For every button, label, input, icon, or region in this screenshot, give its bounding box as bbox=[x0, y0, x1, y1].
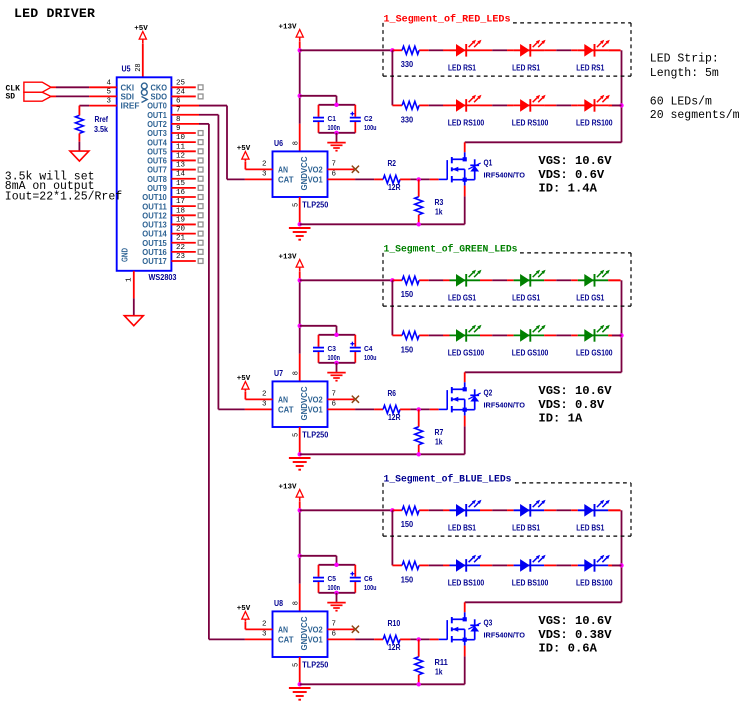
transistor Q1 IRF540N channel 1 bbox=[439, 178, 448, 180]
svg-text:U5: U5 bbox=[122, 65, 131, 74]
svg-text:1_Segment_of_GREEN_LEDs: 1_Segment_of_GREEN_LEDs bbox=[384, 244, 518, 256]
dashed segment box channel 3 bbox=[382, 483, 384, 536]
wire after LED 2 row1 channel 2 bbox=[544, 279, 556, 281]
LED LED RS100 #3 row2 channel 1 bbox=[578, 104, 609, 106]
unconnected terminal pin 15 bbox=[198, 185, 203, 190]
node junction rail at R3 bbox=[417, 222, 421, 226]
svg-text:25: 25 bbox=[176, 79, 186, 87]
svg-text:1k: 1k bbox=[435, 438, 443, 447]
wire row2 channel 3 bbox=[429, 564, 444, 566]
svg-text:OUT3: OUT3 bbox=[147, 129, 167, 138]
wire source Q2 to rail bbox=[464, 416, 466, 427]
LED LED RS1 #2 row1 channel 1 bbox=[514, 49, 545, 51]
svg-text:2: 2 bbox=[262, 620, 267, 628]
svg-text:7: 7 bbox=[332, 390, 337, 398]
wire drain Q1 bbox=[464, 142, 466, 152]
unconnected terminal pin 10 bbox=[198, 140, 203, 145]
node junction gate channel 1 bbox=[417, 177, 421, 181]
no-connect X at VO2 U7 bbox=[352, 396, 359, 403]
node junction +13V row1 channel 2 bbox=[298, 278, 302, 282]
svg-text:17: 17 bbox=[176, 198, 185, 206]
svg-text:4: 4 bbox=[106, 79, 111, 87]
LED LED BS1 #1 row1 channel 3 bbox=[450, 509, 481, 511]
svg-text:60 LEDs/m: 60 LEDs/m bbox=[650, 95, 712, 108]
wire to LED 2 row2 channel 2 bbox=[507, 334, 513, 336]
svg-text:VDS: 0.6V: VDS: 0.6V bbox=[538, 168, 605, 182]
svg-text:CKI: CKI bbox=[121, 83, 135, 92]
wire after LED 1 row1 channel 2 bbox=[480, 279, 492, 281]
optocoupler U7 TLP250 body channel 2 bbox=[273, 381, 328, 427]
node junction return row2 channel 2 bbox=[619, 333, 623, 337]
wire stub U5 pin 25 bbox=[171, 86, 195, 88]
svg-text:LED GS1: LED GS1 bbox=[576, 294, 604, 303]
svg-text:VDS: 0.8V: VDS: 0.8V bbox=[538, 398, 605, 412]
wire after LED 1 row1 channel 1 bbox=[480, 49, 492, 51]
svg-text:12R: 12R bbox=[388, 183, 401, 192]
svg-text:13: 13 bbox=[176, 162, 186, 170]
svg-text:6: 6 bbox=[332, 170, 337, 178]
wire VO2 no-connect U6 bbox=[328, 168, 355, 170]
svg-text:LED BS100: LED BS100 bbox=[576, 579, 613, 588]
svg-text:28: 28 bbox=[135, 63, 143, 71]
svg-text:+5V: +5V bbox=[134, 25, 148, 33]
resistor 330 row2 channel 1 bbox=[402, 101, 419, 109]
wire rows split to row2 channel 3 bbox=[391, 510, 393, 565]
svg-text:OUT12: OUT12 bbox=[142, 211, 167, 220]
resistor 150 row1 channel 3 bbox=[392, 509, 402, 511]
svg-text:U8: U8 bbox=[274, 599, 283, 608]
svg-text:R10: R10 bbox=[388, 619, 401, 628]
svg-text:+5V: +5V bbox=[237, 605, 251, 613]
svg-text:7: 7 bbox=[332, 160, 337, 168]
svg-text:8: 8 bbox=[292, 141, 300, 145]
svg-text:9: 9 bbox=[176, 125, 181, 133]
unconnected terminal pin 12 bbox=[198, 158, 203, 163]
wire rows split to row2 channel 1 bbox=[391, 50, 393, 105]
svg-text:Length: 5m: Length: 5m bbox=[650, 67, 719, 80]
ground symbol under U5 bbox=[124, 316, 143, 326]
node junction rows split channel 1 bbox=[390, 48, 394, 52]
svg-text:R7: R7 bbox=[435, 428, 444, 437]
wire after LED 1 row2 channel 2 bbox=[480, 334, 492, 336]
wire to LED 3 row1 channel 1 bbox=[571, 49, 578, 51]
wire row1 to return rail channel 3 bbox=[608, 509, 620, 511]
wire VO2 no-connect U7 bbox=[328, 398, 355, 400]
wire to LED 3 row1 channel 2 bbox=[571, 279, 578, 281]
svg-text:OUT2: OUT2 bbox=[147, 120, 167, 129]
wire stub U5 pin 9 bbox=[171, 132, 195, 134]
LED LED GS100 #2 row2 channel 2 bbox=[514, 334, 545, 336]
wire R6 to gate bbox=[410, 408, 429, 410]
LED LED BS100 #2 row2 channel 3 bbox=[514, 564, 545, 566]
svg-text:150: 150 bbox=[401, 345, 414, 354]
wire caps branch channel 2 bbox=[300, 325, 337, 327]
node junction return row2 channel 1 bbox=[619, 103, 623, 107]
wire after LED 2 row2 channel 3 bbox=[544, 564, 556, 566]
ground symbol under Rref bbox=[70, 151, 89, 161]
svg-text:LED RS1: LED RS1 bbox=[448, 64, 476, 73]
svg-text:+13V: +13V bbox=[278, 253, 297, 261]
unconnected terminal pin 17 bbox=[198, 204, 203, 209]
ground symbol rail channel 3 bbox=[289, 687, 311, 689]
wire R2 to gate bbox=[410, 178, 429, 180]
svg-text:+5V: +5V bbox=[237, 145, 251, 153]
svg-text:14: 14 bbox=[176, 171, 186, 179]
ground symbol rail channel 2 bbox=[289, 457, 311, 459]
wire row1 to return rail channel 1 bbox=[608, 49, 620, 51]
wire to LED 1 row2 channel 2 bbox=[443, 334, 450, 336]
unconnected terminal pin 22 bbox=[198, 249, 203, 254]
wire VO2 no-connect U8 bbox=[328, 628, 355, 630]
svg-text:3: 3 bbox=[262, 400, 267, 408]
svg-text:OUT16: OUT16 bbox=[142, 248, 167, 257]
svg-text:IRF540N/TO: IRF540N/TO bbox=[484, 633, 526, 640]
unconnected terminal pin 21 bbox=[198, 240, 203, 245]
wire caps to ground channel 1 bbox=[336, 133, 338, 142]
LED LED RS1 #3 row1 channel 1 bbox=[578, 49, 609, 51]
wire stub U5 pin 12 bbox=[171, 159, 195, 161]
svg-text:22: 22 bbox=[176, 244, 185, 252]
svg-text:23: 23 bbox=[176, 253, 186, 261]
wire VO1 to R10 bbox=[328, 638, 356, 640]
svg-text:1k: 1k bbox=[435, 208, 443, 217]
svg-text:AN: AN bbox=[278, 166, 288, 175]
svg-text:SDI: SDI bbox=[121, 92, 135, 101]
svg-text:CAT: CAT bbox=[278, 636, 294, 645]
svg-text:8: 8 bbox=[176, 116, 181, 124]
resistor 150 row2 channel 3 bbox=[402, 561, 419, 569]
svg-text:150: 150 bbox=[401, 575, 414, 584]
unconnected terminal pin 13 bbox=[198, 167, 203, 172]
svg-text:C2: C2 bbox=[364, 116, 373, 123]
svg-text:1_Segment_of_BLUE_LEDs: 1_Segment_of_BLUE_LEDs bbox=[384, 474, 512, 486]
wire to LED 2 row2 channel 3 bbox=[507, 564, 513, 566]
svg-text:LED GS1: LED GS1 bbox=[512, 294, 540, 303]
wire stub U5 pin 21 bbox=[171, 242, 195, 244]
capacitor C3 100n channel 2 bbox=[318, 335, 320, 347]
wire after LED 3 row1 channel 2 bbox=[608, 279, 620, 281]
svg-text:8: 8 bbox=[292, 371, 300, 375]
wire drain Q3 bbox=[464, 602, 466, 612]
wire stub U5 pin 24 bbox=[171, 95, 195, 97]
svg-text:+13V: +13V bbox=[278, 483, 297, 491]
svg-text:12R: 12R bbox=[388, 643, 401, 652]
wire source Q1 to rail bbox=[464, 186, 466, 197]
wire U8 GND pin to rail bbox=[299, 657, 301, 684]
svg-text:3.5k: 3.5k bbox=[94, 125, 108, 134]
svg-text:LED RS100: LED RS100 bbox=[448, 119, 485, 128]
wire caps to ground channel 2 bbox=[336, 363, 338, 372]
svg-text:C4: C4 bbox=[364, 346, 373, 353]
wire row1 channel 2 bbox=[429, 279, 444, 281]
svg-text:1: 1 bbox=[125, 277, 133, 282]
ground rail channel 3 bbox=[300, 683, 465, 685]
wire drain rail channel 2 bbox=[465, 371, 622, 373]
wire row2 channel 2 bbox=[429, 334, 444, 336]
wire return rail channel 2 bbox=[621, 280, 623, 372]
ground symbol caps channel 2 bbox=[327, 372, 345, 374]
wire after LED 1 row2 channel 3 bbox=[480, 564, 492, 566]
svg-text:LED GS100: LED GS100 bbox=[448, 349, 485, 358]
wire to LED 2 row1 channel 3 bbox=[507, 509, 513, 511]
wire to LED 3 row2 channel 3 bbox=[571, 564, 578, 566]
wire return rail channel 3 bbox=[621, 510, 623, 602]
node junction caps bottom channel 1 bbox=[334, 131, 338, 135]
svg-text:VDS: 0.38V: VDS: 0.38V bbox=[538, 628, 612, 642]
svg-text:Q3: Q3 bbox=[484, 619, 493, 628]
node junction +13V row1 channel 1 bbox=[298, 48, 302, 52]
node junction caps top channel 1 bbox=[334, 103, 338, 107]
wire row1 channel 3 bbox=[429, 509, 444, 511]
svg-text:+5V: +5V bbox=[237, 375, 251, 383]
wire OUT1 to U7 CAT bbox=[171, 114, 199, 116]
node junction rail U8 bbox=[298, 682, 302, 686]
wire stub U5 pin 19 bbox=[171, 223, 195, 225]
optocoupler U8 TLP250 body channel 3 bbox=[273, 611, 328, 657]
svg-text:CAT: CAT bbox=[278, 176, 294, 185]
wire to LED 3 row2 channel 2 bbox=[571, 334, 578, 336]
wire to LED 3 row1 channel 3 bbox=[571, 509, 578, 511]
ground rail channel 1 bbox=[300, 223, 465, 225]
capacitor C5 100n channel 3 bbox=[318, 565, 320, 577]
svg-text:20 segments/m: 20 segments/m bbox=[650, 109, 740, 122]
svg-text:LED RS1: LED RS1 bbox=[576, 64, 604, 73]
capacitor C4 100u channel 2 bbox=[354, 335, 356, 347]
svg-text:8: 8 bbox=[292, 601, 300, 605]
svg-text:100u: 100u bbox=[364, 585, 377, 592]
clock symbol circles on U5 bbox=[141, 83, 147, 89]
svg-text:R11: R11 bbox=[435, 658, 449, 667]
svg-text:VO1: VO1 bbox=[308, 636, 324, 645]
node junction caps branch channel 1 bbox=[298, 94, 302, 98]
LED LED BS1 #2 row1 channel 3 bbox=[514, 509, 545, 511]
node junction caps branch channel 3 bbox=[298, 554, 302, 558]
wire to LED 2 row2 channel 1 bbox=[507, 104, 513, 106]
svg-text:24: 24 bbox=[176, 88, 186, 96]
svg-text:330: 330 bbox=[401, 60, 414, 69]
no-connect X at VO2 U8 bbox=[352, 626, 359, 633]
svg-text:OUT14: OUT14 bbox=[142, 230, 167, 239]
svg-text:OUT1: OUT1 bbox=[147, 111, 167, 120]
svg-text:GNDVCC: GNDVCC bbox=[300, 386, 309, 420]
svg-text:Q1: Q1 bbox=[484, 159, 493, 168]
svg-text:OUT17: OUT17 bbox=[142, 257, 167, 266]
wire after LED 2 row1 channel 1 bbox=[544, 49, 556, 51]
svg-text:U7: U7 bbox=[274, 369, 283, 378]
svg-text:Rref: Rref bbox=[95, 115, 109, 124]
wire Rref to ground bbox=[78, 133, 80, 141]
resistor Rref bbox=[75, 115, 83, 133]
LED LED GS100 #3 row2 channel 2 bbox=[578, 334, 609, 336]
svg-text:VO2: VO2 bbox=[308, 166, 324, 175]
ground symbol caps channel 1 bbox=[327, 142, 345, 144]
wire row2 channel 1 bbox=[429, 104, 444, 106]
svg-text:OUT10: OUT10 bbox=[142, 193, 167, 202]
svg-text:U6: U6 bbox=[274, 139, 283, 148]
wire caps to ground channel 3 bbox=[336, 593, 338, 602]
wire after LED 3 row2 channel 1 bbox=[608, 104, 620, 106]
svg-text:SD: SD bbox=[6, 93, 16, 102]
unconnected terminal pin 25 bbox=[198, 85, 203, 90]
svg-text:IRF540N/TO: IRF540N/TO bbox=[484, 403, 526, 410]
unconnected terminal pin 9 bbox=[198, 131, 203, 136]
svg-text:VO1: VO1 bbox=[308, 406, 324, 415]
svg-text:150: 150 bbox=[401, 520, 414, 529]
svg-text:1_Segment_of_RED_LEDs: 1_Segment_of_RED_LEDs bbox=[384, 14, 511, 26]
svg-text:2: 2 bbox=[262, 160, 267, 168]
svg-text:VO2: VO2 bbox=[308, 396, 324, 405]
dashed segment box channel 2 bbox=[382, 253, 384, 306]
wire to LED 3 row2 channel 1 bbox=[571, 104, 578, 106]
svg-text:R6: R6 bbox=[388, 389, 397, 398]
svg-text:OUT4: OUT4 bbox=[147, 138, 167, 147]
wire stub U5 pin 23 bbox=[171, 260, 195, 262]
unconnected terminal pin 24 bbox=[198, 94, 203, 99]
wire drain rail channel 1 bbox=[465, 141, 622, 143]
wire to LED 2 row1 channel 2 bbox=[507, 279, 513, 281]
wire to LED 1 row2 channel 1 bbox=[443, 104, 450, 106]
op-amp U5 WS2803 IC body bbox=[117, 77, 172, 270]
LED LED GS1 #1 row1 channel 2 bbox=[450, 279, 481, 281]
svg-text:12: 12 bbox=[176, 152, 185, 160]
svg-text:100u: 100u bbox=[364, 125, 377, 132]
capacitor C2 100u channel 1 bbox=[354, 105, 356, 117]
wire IREF to Rref bbox=[89, 105, 117, 107]
svg-text:6: 6 bbox=[176, 98, 181, 106]
wire stub U5 pin 22 bbox=[171, 251, 195, 253]
svg-text:LED BS1: LED BS1 bbox=[448, 524, 476, 533]
wire +13V to segment resistor row1 channel 1 bbox=[300, 49, 393, 51]
svg-text:GND: GND bbox=[120, 248, 129, 262]
node junction +13V row1 channel 3 bbox=[298, 508, 302, 512]
node junction caps bottom channel 2 bbox=[334, 361, 338, 365]
svg-text:VO2: VO2 bbox=[308, 626, 324, 635]
svg-text:OUT6: OUT6 bbox=[147, 157, 167, 166]
svg-text:OUT11: OUT11 bbox=[142, 202, 167, 211]
wire CLK to CKI bbox=[51, 86, 56, 88]
wire after LED 2 row1 channel 3 bbox=[544, 509, 556, 511]
resistor 150 row2 channel 2 bbox=[402, 331, 419, 339]
svg-text:3: 3 bbox=[262, 630, 267, 638]
wire +5V to AN U8 bbox=[244, 622, 246, 630]
svg-text:3: 3 bbox=[106, 98, 111, 106]
svg-text:ID: 0.6A: ID: 0.6A bbox=[538, 642, 597, 656]
svg-text:OUT0: OUT0 bbox=[147, 102, 167, 111]
svg-text:LED RS1: LED RS1 bbox=[512, 64, 540, 73]
svg-text:IRF540N/TO: IRF540N/TO bbox=[484, 173, 526, 180]
svg-text:R3: R3 bbox=[435, 198, 444, 207]
svg-text:LED BS1: LED BS1 bbox=[512, 524, 540, 533]
svg-text:11: 11 bbox=[176, 143, 186, 151]
svg-text:100n: 100n bbox=[328, 585, 341, 592]
svg-text:LED Strip:: LED Strip: bbox=[650, 53, 719, 66]
resistor 330 row1 channel 1 bbox=[392, 49, 402, 51]
wire U6 GND pin to rail bbox=[299, 197, 301, 224]
svg-text:LED DRIVER: LED DRIVER bbox=[14, 6, 95, 21]
ground symbol caps channel 3 bbox=[327, 602, 345, 604]
wire OUT2 to U8 CAT bbox=[171, 123, 199, 125]
wire +13V to segment resistor row1 channel 2 bbox=[300, 279, 393, 281]
wire caps branch channel 3 bbox=[300, 555, 337, 557]
wire caps bottom channel 3 bbox=[319, 592, 356, 594]
svg-text:18: 18 bbox=[176, 207, 185, 215]
svg-text:LED GS100: LED GS100 bbox=[576, 349, 613, 358]
resistor R10 12R channel 3 bbox=[383, 635, 400, 643]
LED LED BS100 #1 row2 channel 3 bbox=[450, 564, 481, 566]
wire VO1 to R6 bbox=[328, 408, 356, 410]
wire row1 channel 1 bbox=[429, 49, 444, 51]
wire U7 GND pin to rail bbox=[299, 427, 301, 454]
wire after LED 2 row2 channel 1 bbox=[544, 104, 556, 106]
wire after LED 3 row2 channel 2 bbox=[608, 334, 620, 336]
wire row1 to return rail channel 2 bbox=[608, 279, 620, 281]
wire to LED 2 row1 channel 1 bbox=[507, 49, 513, 51]
wire after LED 1 row1 channel 3 bbox=[480, 509, 492, 511]
svg-text:ID: 1.4A: ID: 1.4A bbox=[538, 182, 597, 196]
LED LED BS100 #3 row2 channel 3 bbox=[578, 564, 609, 566]
wire stub U5 pin 13 bbox=[171, 169, 195, 171]
LED LED GS100 #1 row2 channel 2 bbox=[450, 334, 481, 336]
connector CLK flag bbox=[24, 82, 51, 92]
unconnected terminal pin 11 bbox=[198, 149, 203, 154]
svg-text:LED GS100: LED GS100 bbox=[512, 349, 549, 358]
svg-text:C3: C3 bbox=[328, 346, 337, 353]
wire to LED 1 row1 channel 2 bbox=[443, 279, 450, 281]
unconnected terminal pin 23 bbox=[198, 259, 203, 264]
ground rail channel 2 bbox=[300, 453, 465, 455]
resistor R6 12R channel 2 bbox=[383, 405, 400, 413]
wire caps branch channel 1 bbox=[300, 95, 337, 97]
wire +13V to segment resistor row1 channel 3 bbox=[300, 509, 393, 511]
node junction rows split channel 3 bbox=[390, 508, 394, 512]
svg-text:3: 3 bbox=[262, 170, 267, 178]
node junction rail at R7 bbox=[417, 452, 421, 456]
wire +13V rail channel 3 bbox=[299, 501, 301, 510]
svg-text:10: 10 bbox=[176, 134, 186, 142]
resistor R3 1k channel 1 bbox=[418, 179, 420, 196]
unconnected terminal pin 18 bbox=[198, 213, 203, 218]
wire stub U5 pin 11 bbox=[171, 150, 195, 152]
wire return rail channel 1 bbox=[621, 50, 623, 142]
svg-text:AN: AN bbox=[278, 626, 288, 635]
svg-text:100u: 100u bbox=[364, 355, 377, 362]
unconnected terminal pin 20 bbox=[198, 231, 203, 236]
svg-text:C1: C1 bbox=[328, 116, 337, 123]
svg-text:21: 21 bbox=[176, 235, 186, 243]
svg-text:CKO: CKO bbox=[151, 83, 168, 92]
wire stub U5 pin 18 bbox=[171, 214, 195, 216]
svg-text:19: 19 bbox=[176, 216, 185, 224]
wire to LED 1 row1 channel 1 bbox=[443, 49, 450, 51]
svg-text:7: 7 bbox=[176, 107, 181, 115]
node junction caps bottom channel 3 bbox=[334, 591, 338, 595]
svg-text:16: 16 bbox=[176, 189, 186, 197]
svg-text:AN: AN bbox=[278, 396, 288, 405]
svg-text:6: 6 bbox=[332, 400, 337, 408]
wire drain rail channel 3 bbox=[465, 601, 622, 603]
LED LED GS1 #3 row1 channel 2 bbox=[578, 279, 609, 281]
svg-text:VO1: VO1 bbox=[308, 176, 324, 185]
dashed segment box channel 1 bbox=[382, 23, 384, 76]
LED LED GS1 #2 row1 channel 2 bbox=[514, 279, 545, 281]
wire +13V rail channel 1 bbox=[299, 41, 301, 50]
unconnected terminal pin 19 bbox=[198, 222, 203, 227]
svg-text:5: 5 bbox=[106, 88, 111, 96]
svg-text:100n: 100n bbox=[328, 125, 341, 132]
wire stub U5 pin 15 bbox=[171, 187, 195, 189]
wire R10 to gate bbox=[410, 638, 429, 640]
node junction rail U7 bbox=[298, 452, 302, 456]
